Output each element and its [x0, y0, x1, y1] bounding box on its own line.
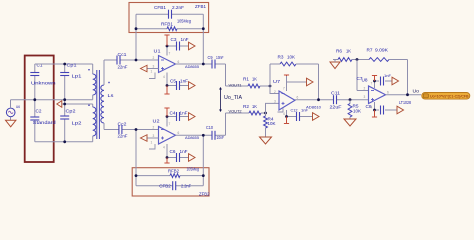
svg-text:10K: 10K — [353, 109, 361, 114]
svg-text:Unknown: Unknown — [31, 80, 56, 85]
svg-text:7: 7 — [169, 52, 171, 56]
svg-text:AD8610: AD8610 — [306, 105, 322, 110]
svg-text:10K: 10K — [268, 121, 276, 126]
svg-text:RFB1: RFB1 — [161, 22, 174, 27]
svg-text:C5: C5 — [170, 79, 177, 84]
svg-text:C7: C7 — [357, 76, 364, 81]
svg-text:1: 1 — [151, 70, 153, 74]
svg-text:1K: 1K — [252, 77, 257, 82]
svg-text:Cc1: Cc1 — [118, 52, 127, 57]
svg-text:2: 2 — [153, 56, 155, 60]
svg-text:4: 4 — [283, 112, 285, 116]
svg-text:3: 3 — [153, 134, 155, 138]
svg-text:Cp1: Cp1 — [67, 62, 78, 67]
svg-text:ZFB1: ZFB1 — [195, 4, 206, 9]
svg-text:1nF: 1nF — [180, 149, 188, 154]
svg-text:RFB2: RFB2 — [168, 169, 180, 174]
svg-text:U7: U7 — [273, 79, 281, 84]
svg-text:2: 2 — [153, 126, 155, 130]
svg-text:1nF: 1nF — [180, 111, 188, 116]
svg-text:1nF: 1nF — [180, 79, 188, 84]
svg-text:6: 6 — [178, 60, 180, 64]
svg-text:4: 4 — [163, 75, 165, 79]
svg-text:6: 6 — [387, 91, 389, 95]
svg-text:R6: R6 — [336, 49, 343, 54]
svg-text:1K: 1K — [252, 104, 257, 109]
svg-text:C3: C3 — [171, 37, 178, 42]
svg-text:3: 3 — [153, 65, 155, 69]
svg-text:1K: 1K — [346, 49, 351, 54]
svg-text:VOUT1: VOUT1 — [229, 83, 243, 88]
svg-text:3: 3 — [364, 95, 366, 99]
svg-text:Standard: Standard — [33, 120, 57, 125]
svg-text:R7: R7 — [367, 48, 374, 53]
svg-text:C4: C4 — [170, 111, 177, 116]
svg-text:AD8655: AD8655 — [185, 64, 200, 69]
svg-text:7: 7 — [169, 122, 171, 126]
svg-text:C1: C1 — [37, 63, 44, 68]
svg-text:C12: C12 — [291, 109, 298, 113]
svg-text:2: 2 — [364, 87, 366, 91]
svg-text:Lp2: Lp2 — [72, 120, 83, 125]
svg-text:6: 6 — [178, 131, 180, 135]
svg-text:LT1028: LT1028 — [399, 100, 412, 105]
svg-text:1nF: 1nF — [181, 37, 189, 42]
svg-text:Uo=10*Vs*(C1-C2)/CFB: Uo=10*Vs*(C1-C2)/CFB — [430, 95, 469, 99]
svg-text:10nF: 10nF — [216, 55, 224, 60]
svg-text:C9: C9 — [208, 55, 214, 60]
svg-text:2.2nF: 2.2nF — [172, 5, 184, 10]
svg-text:R3: R3 — [278, 55, 285, 60]
svg-text:Cc2: Cc2 — [118, 121, 127, 126]
svg-text:R1: R1 — [243, 77, 250, 82]
svg-text:105Meg: 105Meg — [187, 166, 200, 171]
svg-text:C11: C11 — [331, 91, 341, 96]
svg-text:1: 1 — [151, 141, 153, 145]
svg-text:R2: R2 — [243, 104, 250, 109]
svg-text:CFB1: CFB1 — [154, 5, 166, 10]
svg-text:9.09K: 9.09K — [375, 48, 388, 53]
svg-text:7: 7 — [371, 82, 373, 86]
svg-text:CFB2: CFB2 — [159, 184, 171, 189]
svg-text:10nF: 10nF — [217, 135, 225, 140]
svg-text:Lp1: Lp1 — [72, 73, 83, 78]
svg-text:2.2nF: 2.2nF — [181, 184, 191, 189]
svg-text:1nF: 1nF — [384, 74, 392, 78]
svg-text:3: 3 — [274, 100, 276, 104]
svg-text:22nF: 22nF — [118, 64, 128, 69]
svg-text:7: 7 — [283, 87, 285, 91]
svg-text:U1: U1 — [154, 49, 162, 54]
svg-text:U6: U6 — [16, 105, 20, 109]
svg-text:VOUT2: VOUT2 — [229, 108, 243, 113]
svg-text:105Meg: 105Meg — [177, 19, 191, 24]
svg-text:10K: 10K — [287, 55, 295, 60]
svg-text:Cp2: Cp2 — [66, 109, 77, 114]
svg-text:6: 6 — [297, 96, 299, 100]
svg-text:C6: C6 — [170, 149, 177, 154]
svg-text:Ls: Ls — [108, 93, 114, 98]
svg-text:C2: C2 — [36, 109, 43, 114]
svg-text:Uo_TIA: Uo_TIA — [224, 95, 243, 101]
svg-text:22nF: 22nF — [118, 134, 128, 139]
svg-text:22uF: 22uF — [330, 105, 342, 110]
svg-text:2: 2 — [274, 90, 276, 94]
svg-text:U2: U2 — [153, 119, 161, 124]
svg-text:C10: C10 — [206, 125, 214, 130]
svg-text:4: 4 — [163, 146, 165, 150]
svg-text:Uo: Uo — [413, 88, 420, 93]
svg-text:ZFB2: ZFB2 — [199, 192, 210, 197]
svg-text:1nF: 1nF — [301, 109, 309, 113]
svg-text:4: 4 — [371, 106, 373, 110]
